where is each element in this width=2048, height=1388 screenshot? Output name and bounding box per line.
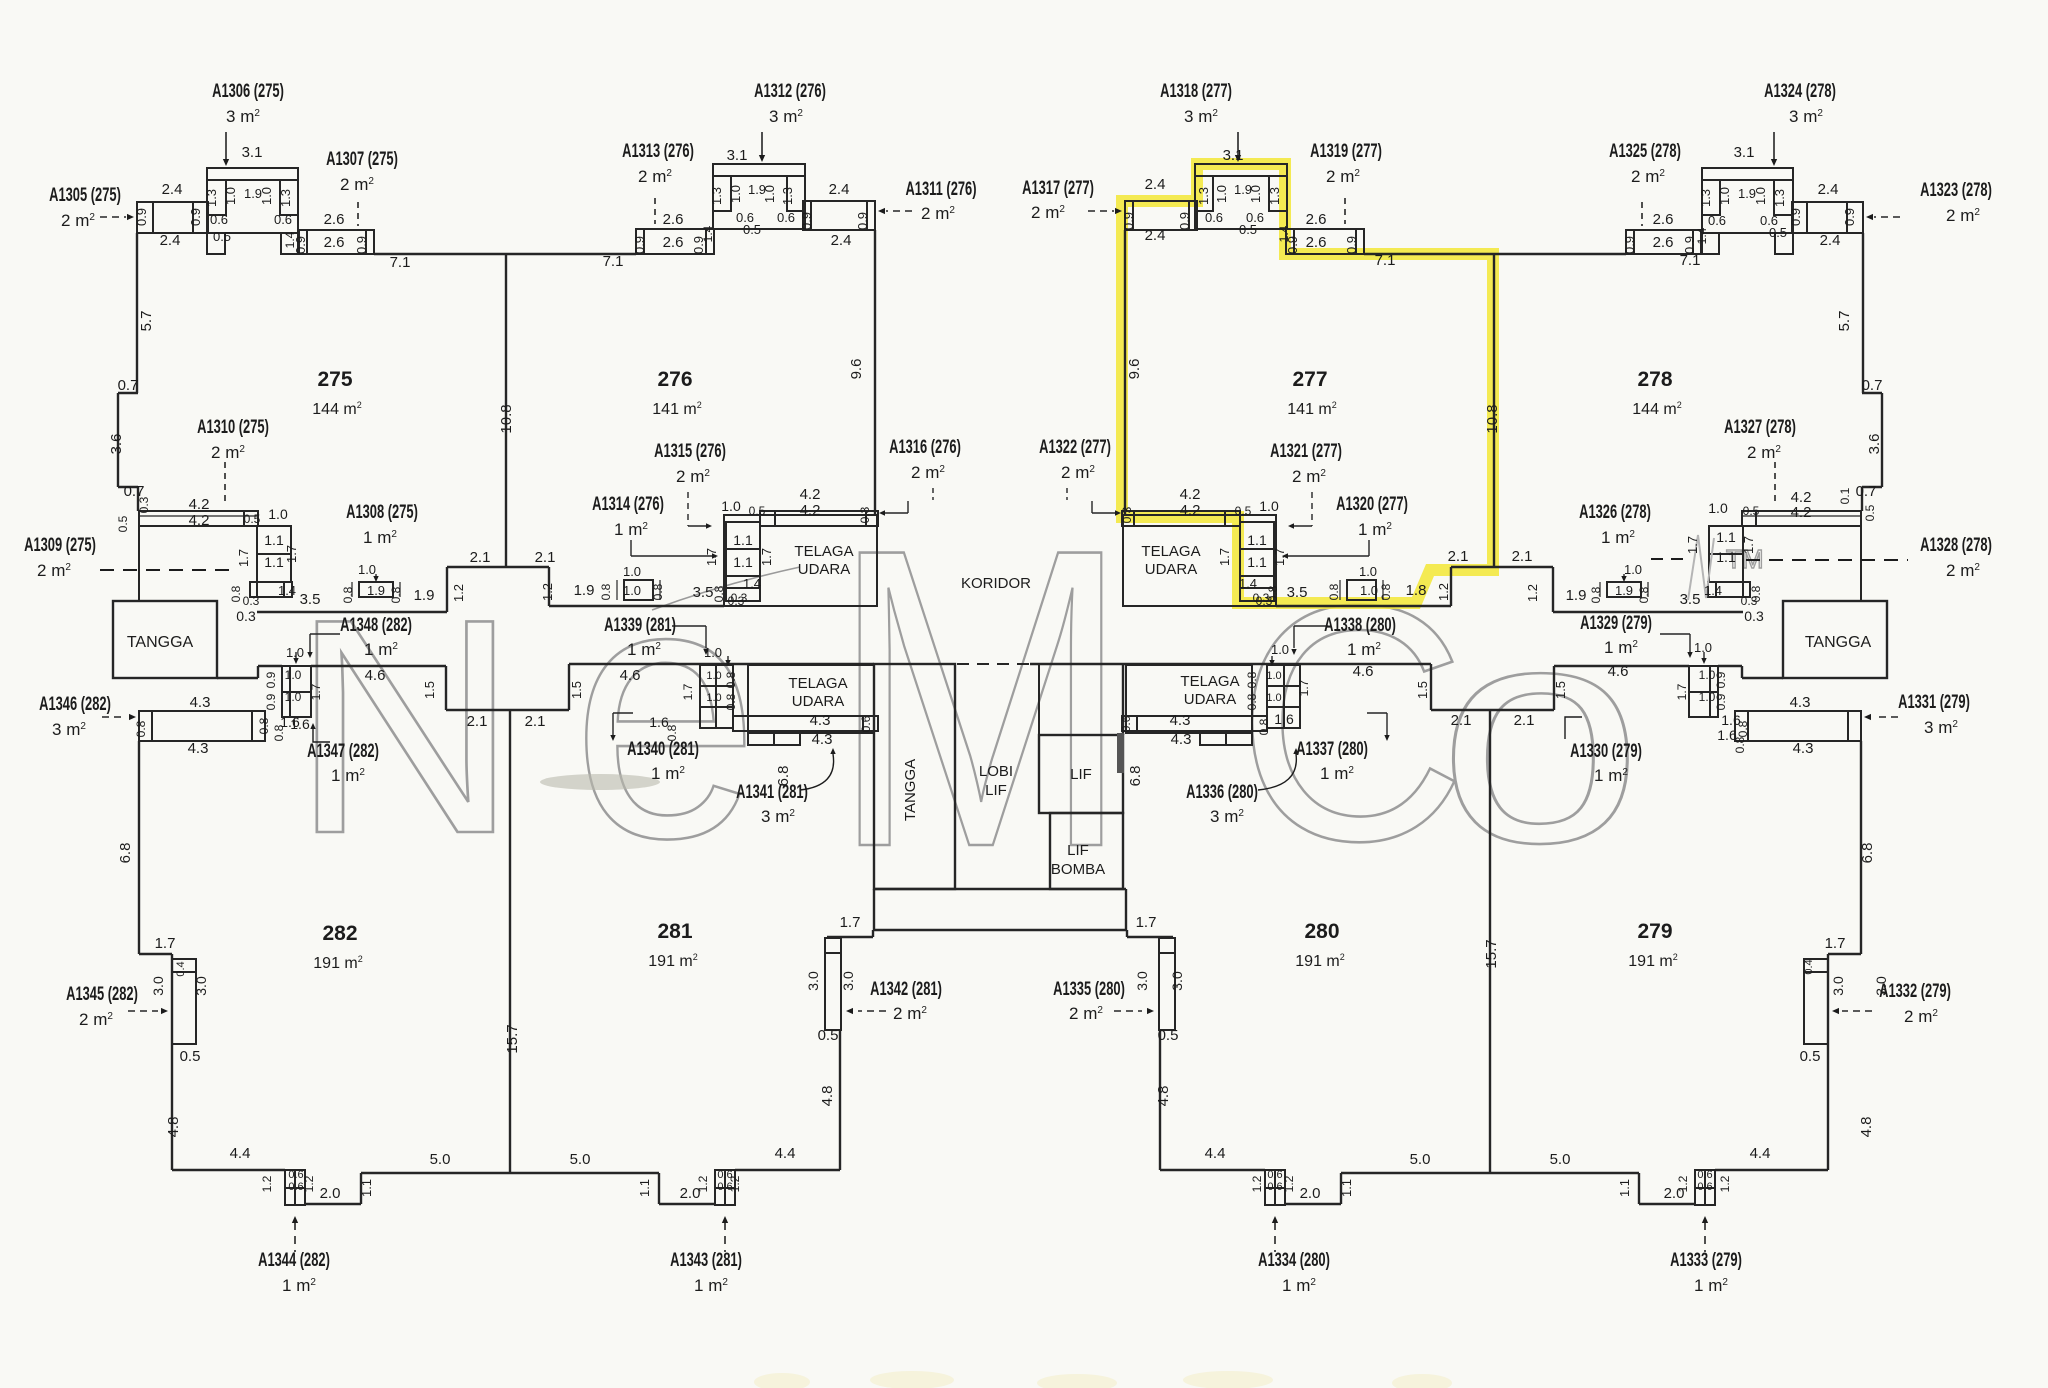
svg-text:3.0: 3.0 [193,976,209,996]
svg-text:2.4: 2.4 [1145,227,1166,244]
svg-text:10.8: 10.8 [498,404,515,433]
svg-text:A1328 (278): A1328 (278) [1920,535,1992,556]
svg-text:3.5: 3.5 [693,584,714,601]
svg-text:4.4: 4.4 [1750,1145,1771,1162]
svg-text:A1345 (282): A1345 (282) [66,984,138,1005]
svg-text:9.6: 9.6 [1126,359,1143,380]
svg-text:0.9: 0.9 [293,236,308,254]
svg-text:0.8: 0.8 [341,586,355,603]
svg-text:1.7: 1.7 [1297,679,1311,696]
svg-text:1.3: 1.3 [1267,187,1282,205]
svg-text:3.1: 3.1 [1223,147,1244,164]
svg-text:1.7: 1.7 [1675,683,1689,700]
svg-text:1.2: 1.2 [1718,1175,1732,1192]
svg-text:A1314 (276): A1314 (276) [592,494,664,515]
svg-text:0.9: 0.9 [1344,236,1359,254]
svg-text:TANGGA: TANGGA [902,759,919,821]
svg-text:6.8: 6.8 [775,766,792,787]
svg-text:0.8: 0.8 [389,586,403,603]
svg-text:1.4: 1.4 [1239,576,1257,591]
svg-text:0.8: 0.8 [724,693,738,710]
svg-text:A1336 (280): A1336 (280) [1186,782,1258,803]
svg-text:0.5: 0.5 [180,1048,201,1065]
svg-text:3.0: 3.0 [1134,971,1150,991]
svg-text:4.3: 4.3 [812,731,833,748]
svg-text:2.6: 2.6 [663,211,684,228]
svg-text:4.4: 4.4 [230,1145,251,1162]
svg-text:4.4: 4.4 [1205,1145,1226,1162]
svg-text:4.4: 4.4 [775,1145,796,1162]
svg-text:4.6: 4.6 [1608,663,1629,680]
svg-text:1.4: 1.4 [1695,227,1709,244]
svg-text:1.9: 1.9 [367,583,385,598]
svg-text:1.9: 1.9 [1566,587,1587,604]
svg-text:1.0: 1.0 [286,645,304,660]
svg-text:A1321 (277): A1321 (277) [1270,441,1342,462]
svg-text:0.8: 0.8 [1245,671,1259,688]
svg-text:9.6: 9.6 [848,359,865,380]
svg-text:1.6: 1.6 [1274,711,1294,727]
svg-text:2.1: 2.1 [1514,712,1535,729]
svg-text:A1309 (275): A1309 (275) [24,535,96,556]
svg-text:0.8: 0.8 [651,583,665,600]
svg-text:1.0: 1.0 [728,185,743,203]
svg-text:0.6: 0.6 [210,212,228,227]
svg-text:1.7: 1.7 [759,548,774,566]
svg-text:0.5: 0.5 [213,229,231,244]
svg-text:A1346 (282): A1346 (282) [39,694,111,715]
svg-text:1.1: 1.1 [1247,532,1267,548]
svg-text:2.6: 2.6 [324,211,345,228]
svg-text:3.5: 3.5 [1680,591,1701,608]
svg-text:3.1: 3.1 [1734,144,1755,161]
svg-text:1.2: 1.2 [1676,1175,1690,1192]
svg-text:7.1: 7.1 [1375,252,1396,269]
svg-text:1.2: 1.2 [1250,1175,1264,1192]
svg-text:0.8: 0.8 [1327,583,1341,600]
svg-text:A1311 (276): A1311 (276) [905,179,976,200]
svg-text:5.0: 5.0 [1550,1151,1571,1168]
svg-text:0.3: 0.3 [137,496,151,513]
svg-text:A1342 (281): A1342 (281) [870,979,942,1000]
svg-text:0.9: 0.9 [632,236,647,254]
svg-text:2.1: 2.1 [1512,548,1533,565]
svg-text:TELAGA: TELAGA [1180,673,1239,690]
svg-text:3.0: 3.0 [840,971,856,991]
svg-text:1.9: 1.9 [574,582,595,599]
svg-text:0.5: 0.5 [1863,504,1877,521]
svg-text:1.3: 1.3 [780,187,795,205]
svg-text:5.7: 5.7 [138,311,155,332]
svg-text:1.7: 1.7 [704,548,719,566]
svg-text:A1318 (277): A1318 (277) [1160,81,1232,102]
svg-text:1.6: 1.6 [1717,727,1737,743]
svg-text:191 m2: 191 m2 [1628,952,1677,970]
svg-text:A1326 (278): A1326 (278) [1579,502,1651,523]
svg-text:1.1: 1.1 [1339,1179,1354,1197]
svg-text:0.9: 0.9 [264,693,278,710]
svg-text:1.7: 1.7 [1272,548,1287,566]
svg-text:0.9: 0.9 [1714,671,1728,688]
svg-text:2.6: 2.6 [324,234,345,251]
svg-text:0.3: 0.3 [1253,591,1270,605]
svg-text:1.0: 1.0 [721,498,741,514]
svg-text:1.2: 1.2 [728,1175,742,1192]
svg-text:5.0: 5.0 [570,1151,591,1168]
svg-text:0.9: 0.9 [855,212,870,230]
svg-text:4.8: 4.8 [819,1086,836,1107]
svg-text:A1310 (275): A1310 (275) [197,417,269,438]
svg-text:0.6: 0.6 [859,715,873,732]
svg-text:TELAGA: TELAGA [1141,543,1200,560]
svg-text:7.1: 7.1 [390,254,411,271]
svg-text:UDARA: UDARA [792,693,845,710]
svg-text:0.5: 0.5 [818,1027,839,1044]
svg-text:0.4: 0.4 [175,961,187,976]
svg-text:A1344 (282): A1344 (282) [258,1250,330,1271]
svg-text:0.9: 0.9 [1121,212,1136,230]
svg-text:2.6: 2.6 [1306,211,1327,228]
svg-text:4.3: 4.3 [810,712,831,729]
svg-text:UDARA: UDARA [1145,561,1198,578]
svg-text:A1332 (279): A1332 (279) [1879,981,1951,1002]
svg-text:1.0: 1.0 [1694,640,1712,655]
svg-text:2.4: 2.4 [1820,232,1841,249]
svg-text:0.5: 0.5 [749,504,766,518]
svg-text:1.0: 1.0 [1360,583,1378,598]
svg-text:275: 275 [317,368,352,391]
svg-text:A1319 (277): A1319 (277) [1310,141,1382,162]
svg-text:1.7: 1.7 [155,935,176,952]
svg-text:1.5: 1.5 [1553,681,1568,699]
svg-text:279: 279 [1637,920,1672,943]
svg-text:1.2: 1.2 [1282,1175,1296,1192]
svg-text:2.4: 2.4 [160,232,181,249]
svg-text:0.8: 0.8 [599,583,613,600]
svg-text:1.7: 1.7 [840,914,861,931]
svg-text:1.1: 1.1 [359,1179,374,1197]
svg-text:0.3: 0.3 [1744,608,1764,624]
svg-text:0.3: 0.3 [243,594,260,608]
svg-text:1.0: 1.0 [285,668,302,682]
svg-text:0.9: 0.9 [354,236,369,254]
svg-text:0.5: 0.5 [1235,504,1252,518]
svg-text:3.6: 3.6 [108,434,125,455]
svg-text:1.0: 1.0 [223,187,238,205]
svg-text:0.6: 0.6 [1708,213,1726,228]
svg-text:1.4: 1.4 [1277,225,1291,242]
svg-text:1.2: 1.2 [451,584,466,602]
svg-text:1.0: 1.0 [762,185,777,203]
svg-text:TELAGA: TELAGA [788,675,847,692]
svg-text:1.7: 1.7 [1741,536,1756,554]
svg-text:3.0: 3.0 [1830,976,1846,996]
svg-text:3.5: 3.5 [1287,584,1308,601]
svg-text:A1339 (281): A1339 (281) [604,615,676,636]
svg-text:0.8: 0.8 [1379,583,1393,600]
svg-text:1.3: 1.3 [1772,189,1787,207]
svg-text:A1330 (279): A1330 (279) [1570,741,1642,762]
svg-text:1.0: 1.0 [1624,562,1642,577]
svg-text:1.3: 1.3 [1196,187,1211,205]
svg-text:0.8: 0.8 [1736,720,1750,737]
svg-text:1.0: 1.0 [1271,642,1289,657]
svg-text:7.1: 7.1 [1680,252,1701,269]
svg-text:1.5: 1.5 [569,681,584,699]
svg-text:0.9: 0.9 [1177,212,1192,230]
svg-text:1.0: 1.0 [623,564,641,579]
svg-text:A1337 (280): A1337 (280) [1296,739,1368,760]
svg-text:4.8: 4.8 [1858,1117,1875,1138]
svg-text:0.8: 0.8 [712,585,726,602]
svg-text:4.2: 4.2 [189,512,210,529]
svg-text:A1315 (276): A1315 (276) [654,441,726,462]
svg-text:0.6: 0.6 [1267,1181,1282,1193]
svg-text:0.9: 0.9 [1622,236,1637,254]
svg-text:UDARA: UDARA [1184,691,1237,708]
svg-text:2.6: 2.6 [1653,234,1674,251]
svg-text:1.1: 1.1 [264,554,284,570]
svg-text:1.1: 1.1 [1716,549,1736,565]
svg-text:2.1: 2.1 [467,713,488,730]
svg-text:LIF: LIF [1070,766,1092,783]
svg-text:5.7: 5.7 [1836,311,1853,332]
svg-text:3.5: 3.5 [300,591,321,608]
svg-text:A1305 (275): A1305 (275) [49,185,121,206]
svg-text:276: 276 [657,368,692,391]
svg-text:2.4: 2.4 [1818,181,1839,198]
svg-text:0.9: 0.9 [134,208,149,226]
svg-text:1.0: 1.0 [1214,185,1229,203]
svg-text:1.4: 1.4 [278,583,296,598]
svg-text:LIF: LIF [1067,842,1089,859]
svg-text:3.0: 3.0 [805,971,821,991]
svg-text:1.7: 1.7 [1136,914,1157,931]
svg-text:0.1: 0.1 [1838,487,1852,504]
svg-text:2.4: 2.4 [831,232,852,249]
svg-text:1.2: 1.2 [540,583,555,601]
svg-text:4.3: 4.3 [188,740,209,757]
svg-text:4.3: 4.3 [1170,712,1191,729]
svg-text:BOMBA: BOMBA [1051,861,1105,878]
svg-text:2.1: 2.1 [470,549,491,566]
svg-text:0.6: 0.6 [1205,210,1223,225]
svg-text:1.0: 1.0 [1359,564,1377,579]
svg-text:0.6: 0.6 [1267,1169,1282,1181]
svg-text:A1307 (275): A1307 (275) [326,149,398,170]
svg-text:A1341 (281): A1341 (281) [736,782,808,803]
svg-text:1.1: 1.1 [264,532,284,548]
svg-text:A1348 (282): A1348 (282) [340,615,412,636]
svg-text:1.0: 1.0 [358,562,376,577]
svg-text:0.8: 0.8 [665,724,679,741]
svg-text:141 m2: 141 m2 [1287,400,1336,418]
svg-text:1.0: 1.0 [706,670,721,682]
svg-text:1.7: 1.7 [309,683,323,700]
svg-text:A1334 (280): A1334 (280) [1258,1250,1330,1271]
svg-text:1.7: 1.7 [284,545,299,563]
svg-text:A1343 (281): A1343 (281) [670,1250,742,1271]
svg-text:191 m2: 191 m2 [313,954,362,972]
svg-text:1.0: 1.0 [285,690,302,704]
svg-text:4.2: 4.2 [800,502,821,519]
svg-text:1.0: 1.0 [1708,500,1728,516]
svg-text:0.9: 0.9 [1842,208,1857,226]
svg-text:1.0: 1.0 [1259,498,1279,514]
svg-text:0.9: 0.9 [264,671,278,688]
svg-text:0.9: 0.9 [799,212,814,230]
svg-text:1.5: 1.5 [422,681,437,699]
svg-text:4.3: 4.3 [1793,740,1814,757]
svg-text:141 m2: 141 m2 [652,400,701,418]
svg-text:278: 278 [1637,368,1672,391]
svg-text:0.6: 0.6 [1697,1169,1712,1181]
svg-text:0.9: 0.9 [188,208,203,226]
svg-text:1.7: 1.7 [681,683,695,700]
svg-text:1.0: 1.0 [623,583,641,598]
svg-text:1.2: 1.2 [302,1175,316,1192]
svg-text:0.8: 0.8 [1245,693,1259,710]
svg-text:0.3: 0.3 [236,608,256,624]
svg-text:A1338 (280): A1338 (280) [1324,615,1396,636]
svg-text:A1340 (281): A1340 (281) [627,739,699,760]
svg-text:4.2: 4.2 [189,496,210,513]
svg-text:6.8: 6.8 [117,843,134,864]
svg-text:LIF: LIF [985,782,1007,799]
svg-text:1.1: 1.1 [1617,1179,1632,1197]
svg-text:1.1: 1.1 [637,1179,652,1197]
svg-text:4.2: 4.2 [1180,486,1201,503]
svg-text:1.0: 1.0 [1699,690,1716,704]
svg-text:191 m2: 191 m2 [648,952,697,970]
svg-text:A1329 (279): A1329 (279) [1580,613,1652,634]
svg-text:1.0: 1.0 [1266,692,1281,704]
svg-text:2.1: 2.1 [535,549,556,566]
svg-text:2.4: 2.4 [1145,176,1166,193]
svg-text:1.7: 1.7 [1217,548,1232,566]
svg-text:1.7: 1.7 [1825,935,1846,952]
svg-text:1.9: 1.9 [414,587,435,604]
svg-text:1.7: 1.7 [1685,536,1700,554]
svg-text:1.9: 1.9 [1615,583,1633,598]
svg-text:A1335 (280): A1335 (280) [1053,979,1125,1000]
svg-text:1.0: 1.0 [1266,670,1281,682]
svg-text:144 m2: 144 m2 [312,400,361,418]
svg-text:0.5: 0.5 [244,512,261,526]
svg-text:1.3: 1.3 [204,189,219,207]
svg-text:281: 281 [657,920,692,943]
svg-text:1.3: 1.3 [278,189,293,207]
svg-text:1.1: 1.1 [733,532,753,548]
svg-text:0.3: 0.3 [1120,506,1134,523]
svg-text:2.4: 2.4 [162,181,183,198]
svg-text:4.8: 4.8 [1155,1086,1172,1107]
svg-text:1.3: 1.3 [1698,189,1713,207]
svg-text:4.6: 4.6 [365,667,386,684]
svg-text:4.2: 4.2 [1791,504,1812,521]
svg-text:0.8: 0.8 [134,720,148,737]
svg-text:1.0: 1.0 [706,692,721,704]
svg-text:A1323 (278): A1323 (278) [1920,180,1992,201]
svg-text:0.8: 0.8 [724,671,738,688]
svg-text:1.6: 1.6 [280,714,300,730]
svg-text:1.4: 1.4 [743,576,761,591]
svg-text:2.4: 2.4 [829,181,850,198]
svg-text:0.5: 0.5 [1743,504,1760,518]
svg-text:1.4: 1.4 [1704,583,1722,598]
svg-text:3.0: 3.0 [1169,971,1185,991]
svg-text:6.8: 6.8 [1859,843,1876,864]
svg-text:1.9: 1.9 [1234,182,1252,197]
svg-text:2.1: 2.1 [1448,548,1469,565]
svg-text:1.2: 1.2 [1436,583,1451,601]
svg-text:4.3: 4.3 [1171,731,1192,748]
svg-text:A1306 (275): A1306 (275) [212,81,284,102]
svg-text:0.5: 0.5 [116,515,130,532]
svg-text:1.0: 1.0 [268,506,288,522]
svg-text:0.8: 0.8 [257,717,271,734]
svg-text:0.8: 0.8 [1637,586,1651,603]
svg-text:0.4: 0.4 [1803,959,1815,974]
svg-text:280: 280 [1304,920,1339,943]
svg-text:1.0: 1.0 [259,187,274,205]
svg-text:A1320 (277): A1320 (277) [1336,494,1408,515]
svg-text:0.5: 0.5 [1769,225,1787,240]
svg-text:0.5: 0.5 [1239,222,1257,237]
svg-text:5.0: 5.0 [1410,1151,1431,1168]
svg-text:A1316 (276): A1316 (276) [889,437,961,458]
svg-text:A1333 (279): A1333 (279) [1670,1250,1742,1271]
svg-text:1.5: 1.5 [1415,681,1430,699]
svg-text:1.1: 1.1 [1716,529,1736,545]
svg-text:0.3: 0.3 [858,506,872,523]
svg-text:15.7: 15.7 [1483,939,1500,968]
svg-text:1.3: 1.3 [709,187,724,205]
svg-text:TANGGA: TANGGA [1805,634,1872,651]
svg-text:6.8: 6.8 [1127,766,1144,787]
svg-text:2.6: 2.6 [1653,211,1674,228]
svg-text:LOBI: LOBI [979,763,1013,780]
svg-text:TANGGA: TANGGA [127,634,194,651]
svg-text:A1312 (276): A1312 (276) [754,81,826,102]
svg-text:4.3: 4.3 [1790,694,1811,711]
svg-text:2.1: 2.1 [525,713,546,730]
svg-text:0.6: 0.6 [1119,715,1133,732]
svg-text:0.5: 0.5 [1158,1027,1179,1044]
svg-text:0.7: 0.7 [1856,483,1877,500]
svg-text:1.0: 1.0 [1717,187,1732,205]
svg-text:1.2: 1.2 [696,1175,710,1192]
svg-text:2.0: 2.0 [320,1185,341,1202]
svg-text:1.1: 1.1 [1247,554,1267,570]
svg-text:3.0: 3.0 [1873,976,1889,996]
svg-text:0.7: 0.7 [118,377,139,394]
svg-text:1.2: 1.2 [1525,584,1540,602]
svg-text:3.1: 3.1 [242,144,263,161]
svg-text:1.9: 1.9 [1738,186,1756,201]
svg-text:0.3: 0.3 [1741,594,1758,608]
svg-text:A1331 (279): A1331 (279) [1898,692,1970,713]
svg-text:A1313 (276): A1313 (276) [622,141,694,162]
svg-text:7.1: 7.1 [603,253,624,270]
svg-text:4.2: 4.2 [1180,502,1201,519]
svg-text:0.8: 0.8 [1589,586,1603,603]
svg-text:A1308 (275): A1308 (275) [346,502,418,523]
svg-text:4.8: 4.8 [165,1117,182,1138]
svg-text:KORIDOR: KORIDOR [961,575,1031,592]
svg-text:4.6: 4.6 [620,667,641,684]
svg-text:A1317 (277): A1317 (277) [1022,178,1094,199]
